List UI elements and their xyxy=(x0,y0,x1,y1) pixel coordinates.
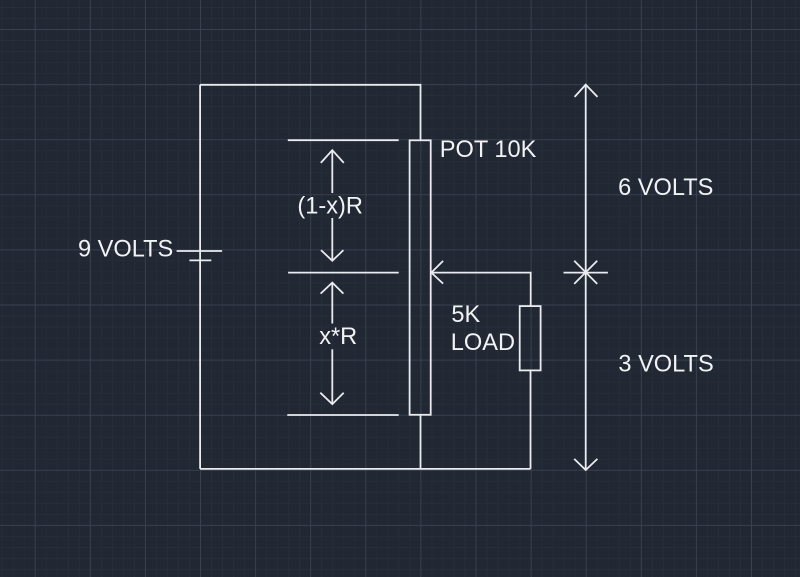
svg-text:5K: 5K xyxy=(451,302,480,328)
svg-text:x*R: x*R xyxy=(319,324,357,350)
svg-text:(1-x)R: (1-x)R xyxy=(297,194,363,220)
svg-text:LOAD: LOAD xyxy=(451,330,515,356)
svg-text:POT 10K: POT 10K xyxy=(440,137,537,163)
svg-text:3 VOLTS: 3 VOLTS xyxy=(618,352,713,378)
svg-text:6 VOLTS: 6 VOLTS xyxy=(618,175,713,201)
svg-text:9 VOLTS: 9 VOLTS xyxy=(78,237,173,263)
